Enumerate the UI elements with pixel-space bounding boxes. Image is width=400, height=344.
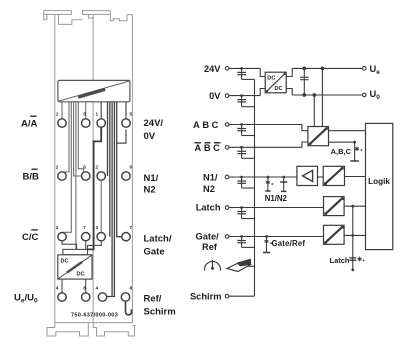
svg-text:6: 6 <box>130 165 133 170</box>
terminal clamp circles row2 <box>58 172 130 180</box>
wire bundle B <box>107 102 122 297</box>
svg-text:2: 2 <box>96 165 99 170</box>
termination Gate/Ref switchable <box>263 235 272 252</box>
pin numbers row2 <box>56 165 133 170</box>
junction Gate/Ref filter <box>237 235 254 247</box>
svg-text:Latch: Latch <box>329 256 349 265</box>
junction Latch filter <box>237 206 254 218</box>
terminal label A-bar B-bar C-bar <box>195 143 223 153</box>
terminal label Schirm <box>190 291 222 301</box>
label 24V/0V <box>144 118 164 142</box>
wire opto N1/N2 to Logik <box>345 176 366 178</box>
optocoupler U2 N1/N2 <box>323 166 344 185</box>
pin numbers row4 <box>56 286 133 291</box>
svg-text:Schirm: Schirm <box>144 307 176 318</box>
module 750-637 body outline <box>55 14 133 322</box>
shield hook terminal 8 <box>126 301 132 315</box>
wire Latch <box>229 207 324 209</box>
svg-text:U0: U0 <box>370 89 381 101</box>
svg-text:A/A: A/A <box>21 119 38 130</box>
wire 24V <box>229 67 260 69</box>
svg-text:3: 3 <box>96 225 99 230</box>
wire stubs row1 left <box>62 102 86 119</box>
terminal dot Schirm <box>225 294 229 298</box>
svg-text:0V: 0V <box>144 131 156 142</box>
svg-text:N1/: N1/ <box>203 173 218 183</box>
label Latch termination <box>329 256 349 265</box>
svg-text:24V/: 24V/ <box>144 118 164 129</box>
svg-text:DC: DC <box>275 86 283 92</box>
terminal label Latch <box>196 203 221 213</box>
label B/B-bar <box>23 169 40 182</box>
wire 0V <box>229 95 260 97</box>
svg-text:N1/: N1/ <box>144 173 159 184</box>
junction 24V filter <box>237 67 254 79</box>
pin numbers row3 <box>56 225 133 230</box>
svg-text:7: 7 <box>130 225 133 230</box>
DC-DC converter module U10 <box>58 255 92 279</box>
wire 24V into DC-DC <box>260 68 265 76</box>
wire opto Latch to Logik <box>344 205 365 207</box>
svg-text:Gate/: Gate/ <box>196 232 220 242</box>
svg-text:6: 6 <box>83 165 86 170</box>
terminal label Gate/Ref <box>196 232 220 252</box>
wire triangle to opto N1/N2 <box>318 176 324 178</box>
termination A,B,C <box>331 141 363 161</box>
svg-text:ABC: ABC <box>195 143 223 153</box>
wire from terminal 5 right block <box>117 130 126 144</box>
svg-text:ABC: ABC <box>193 120 221 130</box>
svg-text:5: 5 <box>83 112 86 117</box>
terminal clamp circles row4 <box>58 293 130 301</box>
terminal dot 0V <box>225 94 229 98</box>
svg-text:8: 8 <box>83 286 86 291</box>
svg-text:DC: DC <box>61 259 69 265</box>
svg-text:Gate: Gate <box>144 247 165 258</box>
terminal label A B C <box>193 120 221 130</box>
wire ABC-bar <box>229 142 308 147</box>
svg-text:A,B,C: A,B,C <box>331 147 352 156</box>
svg-text:750-637/000-003: 750-637/000-003 <box>71 313 118 319</box>
svg-text:0V: 0V <box>209 91 221 101</box>
svg-text:Ue: Ue <box>370 64 381 76</box>
module 750-637 top profile <box>44 11 133 25</box>
optocoupler U4 Gate/Ref <box>324 225 345 244</box>
terminal dot ABC-bar <box>225 146 229 150</box>
label Latch/Gate <box>144 234 172 258</box>
terminal clamp circles row3 <box>58 233 130 241</box>
svg-text:Logik: Logik <box>368 177 390 186</box>
label Ue output <box>370 64 381 76</box>
wire 0V into DC-DC <box>260 89 265 96</box>
wire opto ABC to termination <box>329 141 355 143</box>
label U0 output <box>370 89 381 101</box>
label C/C-bar <box>22 230 39 243</box>
terminal dot N1/N2 <box>225 175 229 179</box>
svg-text:7: 7 <box>83 225 86 230</box>
terminal dot Gate/Ref <box>225 235 229 239</box>
wire Ue to optocoupler supply <box>321 67 324 126</box>
DC converter input bus <box>63 249 88 254</box>
terminal dot Ue <box>362 67 366 71</box>
wire Gate/Ref <box>229 236 324 238</box>
terminal dot 24V <box>225 67 229 71</box>
wire opto Gate/Ref to Logik <box>344 234 365 236</box>
wire ABC <box>229 125 308 131</box>
configuration tool icon <box>227 259 255 272</box>
svg-text:Ue/U0: Ue/U0 <box>14 293 38 305</box>
terminal dot ABC <box>225 123 229 127</box>
Logik block <box>366 123 393 249</box>
svg-text:C/C: C/C <box>22 232 39 243</box>
svg-text:4: 4 <box>96 286 99 291</box>
label Gate/Ref termination <box>272 239 306 248</box>
label Ue/U0 <box>14 293 38 305</box>
svg-text:Ref/: Ref/ <box>144 294 162 305</box>
terminal label N1/N2 <box>203 173 218 194</box>
wires DC converter to row4 <box>62 279 86 293</box>
junction ABC filter <box>237 123 254 135</box>
svg-text:3: 3 <box>56 225 59 230</box>
svg-text:1: 1 <box>56 112 59 117</box>
wire bundle A <box>62 102 84 250</box>
wire stubs row1 right <box>101 102 126 119</box>
junction 0V filter <box>237 94 254 107</box>
potentiometer adjust icon <box>205 260 221 271</box>
terminal dot Latch <box>225 206 229 210</box>
comparator triangle N1/N2 <box>297 166 318 185</box>
svg-text:2: 2 <box>56 165 59 170</box>
wire Schirm <box>229 295 255 297</box>
part number label <box>71 313 118 319</box>
wire DC-DC to Ue <box>286 68 292 76</box>
svg-text:24V: 24V <box>204 64 221 74</box>
wire U0 <box>292 94 362 96</box>
terminal dot U0 <box>362 93 366 97</box>
svg-text:Schirm: Schirm <box>190 291 222 301</box>
svg-text:B/B: B/B <box>23 172 40 183</box>
wire terminal row2 to row3 col3 <box>100 180 102 232</box>
terminal label 0V <box>209 91 221 101</box>
capacitor across Ue/U0 <box>300 67 309 96</box>
svg-text:Latch/: Latch/ <box>144 234 172 245</box>
label N1/N2 termination <box>265 194 288 203</box>
svg-text:Gate/Ref: Gate/Ref <box>272 239 306 248</box>
wire opto ABC to Logik <box>329 130 366 132</box>
termination Latch net <box>349 205 364 271</box>
label N1/N2 module <box>144 173 159 196</box>
termination N1/N2 capacitor <box>280 176 287 192</box>
svg-text:N2: N2 <box>203 184 215 194</box>
wire Ue <box>292 67 362 69</box>
svg-text:Ref: Ref <box>202 242 218 252</box>
svg-text:5: 5 <box>130 112 133 117</box>
wire U0 to optocoupler supply <box>313 94 316 127</box>
terminal label 24V <box>204 64 221 74</box>
svg-text:DC: DC <box>267 76 275 82</box>
termination N1/N2 switchable <box>265 176 273 191</box>
terminal clamp circles row1 <box>58 119 130 127</box>
module 750-637 bottom feet <box>47 323 135 336</box>
label Ref/Schirm <box>144 294 176 318</box>
optocoupler U3 Latch <box>324 197 345 216</box>
svg-text:1: 1 <box>96 112 99 117</box>
label A/A-bar <box>21 116 38 129</box>
pin numbers row1 <box>56 112 133 117</box>
wire N1/N2 <box>229 176 297 178</box>
junction N1/N2 filter <box>237 176 254 188</box>
svg-text:4: 4 <box>56 286 59 291</box>
common rail <box>254 79 256 296</box>
wire from terminal 1 right block <box>88 128 102 250</box>
wires row3 into DC converter bus <box>62 241 101 250</box>
svg-text:8: 8 <box>130 286 133 291</box>
optocoupler U1 ABC <box>308 127 329 146</box>
wire DC-DC to U0 <box>286 89 292 96</box>
svg-text:DC: DC <box>77 272 85 278</box>
svg-text:N1/N2: N1/N2 <box>265 194 288 203</box>
marking field box <box>58 80 130 101</box>
svg-text:Latch: Latch <box>196 203 221 213</box>
DC-DC converter block <box>265 72 286 93</box>
junction ABC-bar filter <box>237 146 254 158</box>
svg-text:N2: N2 <box>144 184 156 195</box>
